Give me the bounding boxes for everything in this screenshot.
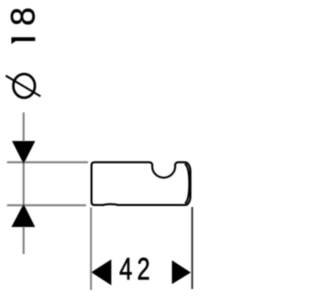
label digit 1 (rotated, part of "Ø 18") — [11, 37, 35, 44]
arrowhead down (Ø18 top) — [12, 141, 35, 164]
diameter symbol Ø (circle) — [13, 74, 35, 98]
arrowhead right (42) — [172, 260, 191, 284]
dimension line (vertical, Ø18) — [23, 113, 25, 255]
extension line (top of hook) — [7, 161, 88, 163]
extension line (bottom of hook) — [7, 204, 86, 206]
extension line (right, 42) — [191, 207, 193, 289]
hook end-cap rim arc — [185, 164, 189, 204]
svg-text:42: 42 — [119, 251, 155, 286]
hook body outline with saddle notch — [92, 162, 191, 205]
arrowhead left (42) — [91, 259, 111, 285]
svg-text:8: 8 — [5, 7, 43, 26]
extension line (left, 42) — [90, 208, 92, 291]
arrowhead up (Ø18 bottom) — [11, 204, 35, 227]
diameter symbol Ø (slash) — [6, 76, 41, 97]
